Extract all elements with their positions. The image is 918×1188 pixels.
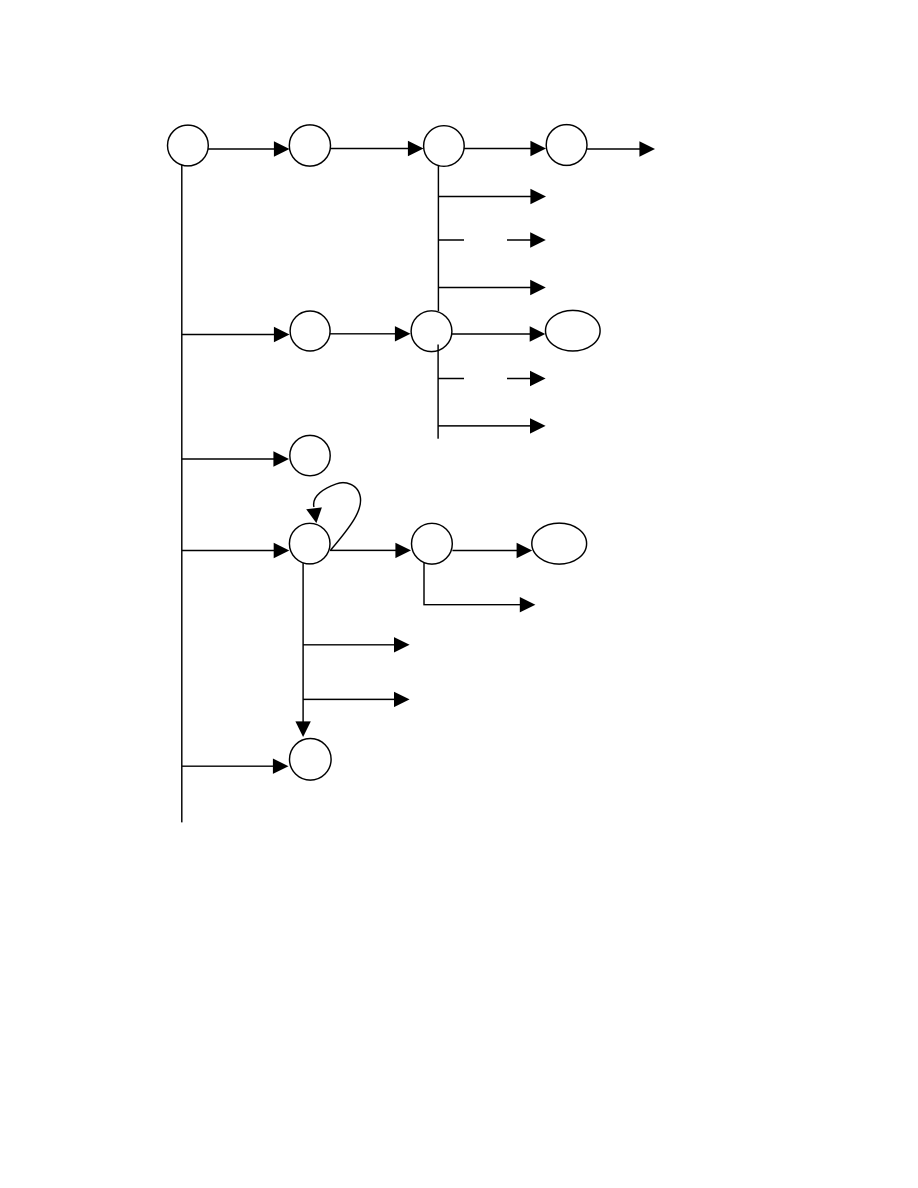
arrow trunk to C8 [182,543,289,558]
arrow branch 1 from C3 trunk [439,189,547,204]
ellipse E2 [532,523,587,564]
wire: branch trunk below node C6 (lower segment, crosses circle edge) [437,345,439,439]
node C7 [290,435,330,475]
self loop on C8 [306,483,360,550]
wire: trunk below C8 with down arrow into C10 [295,563,310,737]
node C10 [290,739,332,781]
arrow C8 to C9 [330,543,411,558]
node C2 [289,125,330,166]
arrow branch 3 from C3 trunk [439,280,546,295]
node C5 [290,311,330,351]
wire: left trunk vertical line [181,165,183,822]
node C1 [168,125,209,166]
arrow C6 to E1 [452,326,545,341]
arrow C9 to E2 [452,543,532,558]
node C4 [546,125,587,166]
node C8 (with self loop) [289,523,330,564]
node C6 [411,311,452,352]
arrow out of C4 [587,141,655,156]
arrow C5 to C6 [330,326,410,341]
arrow branch 5 from C6 trunk [438,418,545,433]
arrow C3 to C4 [464,141,546,156]
node C9 [412,523,453,564]
arrow C1 to C2 [209,141,290,156]
node C3 [424,126,465,167]
arrow C2 to C3 [331,141,424,156]
arrow branch 6 from C8 trunk [303,637,410,652]
arrow trunk to C5 [182,327,290,342]
arrow trunk to C10 [182,759,289,774]
arrow branch 4 (dashed) from C6 trunk [438,371,545,386]
wire: branch trunk below node C3 (upper segment) [437,166,439,312]
wire: L-shaped arrow from C9 down and right [424,563,535,613]
arrow branch 7 from C8 trunk [303,692,410,707]
arrow trunk to C7 [182,451,289,466]
arrow branch 2 (dashed) from C3 trunk [439,232,546,247]
ellipse E1 [546,310,601,351]
